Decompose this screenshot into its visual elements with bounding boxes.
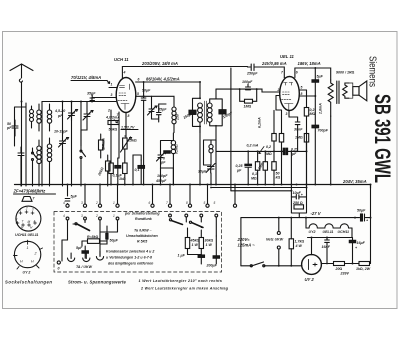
capacitor flat IF2 bbox=[164, 151, 170, 153]
resistor 0,2M vert top bbox=[272, 126, 276, 141]
svg-text:Rundfunk: Rundfunk bbox=[135, 217, 153, 221]
svg-text:3: 3 bbox=[32, 208, 34, 212]
svg-text:50kΩ: 50kΩ bbox=[109, 128, 118, 132]
svg-text:kΩ: kΩ bbox=[276, 176, 281, 180]
resistor vert cathode bbox=[119, 163, 127, 185]
node dots tube right bbox=[143, 81, 145, 97]
svg-text:3: 3 bbox=[81, 214, 83, 218]
label 2,8mA bbox=[319, 103, 323, 115]
svg-text:R≈5kΩ: R≈5kΩ bbox=[87, 235, 99, 239]
IF1 secondary winding bbox=[207, 103, 212, 108]
wire grid bus left bbox=[42, 101, 116, 103]
oscillator coil bbox=[172, 100, 180, 133]
svg-text:204V; 35mA: 204V; 35mA bbox=[342, 179, 367, 184]
svg-text:MΩ: MΩ bbox=[266, 152, 272, 156]
svg-text:des Empfängers entfernen: des Empfängers entfernen bbox=[108, 262, 154, 266]
wire verticals tuner bbox=[15, 98, 93, 187]
label 5/4mA vert bbox=[102, 138, 106, 149]
pin2 wire down bbox=[110, 110, 112, 121]
terminal row A circles bbox=[63, 201, 237, 207]
wire grid line to 250pF bbox=[216, 68, 257, 89]
svg-text:4,0/2mA: 4,0/2mA bbox=[105, 116, 120, 120]
resistor 1M loop bbox=[239, 88, 258, 108]
svg-text:Sockelschaltungen: Sockelschaltungen bbox=[5, 280, 53, 285]
jack sockets bbox=[68, 251, 104, 269]
capacitor 0,25uF series bbox=[283, 148, 299, 157]
bottom caption Sockelschaltungen bbox=[5, 279, 229, 291]
svg-text:220V≈: 220V≈ bbox=[237, 237, 251, 242]
svg-text:1,7kΩ: 1,7kΩ bbox=[295, 240, 305, 244]
terminal row B circles bbox=[63, 214, 218, 220]
capacitor pad bbox=[157, 108, 162, 118]
label 0,2M det bbox=[266, 145, 272, 156]
output transformer primary zigzag bbox=[328, 80, 333, 116]
svg-text:M: M bbox=[28, 220, 31, 224]
svg-text:Ta /UKW –: Ta /UKW – bbox=[134, 229, 152, 233]
svg-text:250: 250 bbox=[176, 114, 180, 121]
tube UCH11 envelope bbox=[116, 78, 136, 113]
capacitor 0,25uF AF bbox=[236, 150, 252, 185]
svg-text:8: 8 bbox=[16, 218, 18, 222]
svg-text:0,2: 0,2 bbox=[266, 145, 271, 149]
wire top to UEL11 pin7 bbox=[258, 67, 284, 78]
resistor 5k in box bbox=[82, 235, 107, 244]
terminal netz 2 bbox=[277, 246, 280, 249]
svg-text:86/104V, 4,5/2mA: 86/104V, 4,5/2mA bbox=[146, 77, 180, 82]
svg-text:9000 / 1RΩ: 9000 / 1RΩ bbox=[336, 71, 355, 75]
svg-text:4: 4 bbox=[34, 220, 36, 224]
svg-text:6: 6 bbox=[149, 201, 151, 205]
capacitor 5uF in box bbox=[76, 246, 88, 258]
svg-text:0,5kΩ: 0,5kΩ bbox=[175, 144, 179, 154]
tube UCH11 internals bbox=[118, 84, 130, 110]
svg-text:30nF: 30nF bbox=[294, 128, 303, 132]
capacitor 250pF bbox=[246, 64, 258, 76]
wire UY2 right bbox=[321, 263, 370, 265]
wire 50uF vertical bbox=[143, 82, 145, 185]
svg-text:1: 1 bbox=[20, 208, 22, 212]
capacitor 50uF box bbox=[106, 226, 119, 243]
wire avc upper bbox=[230, 89, 232, 191]
svg-text:8: 8 bbox=[128, 114, 130, 118]
capacitor 50uF anode bbox=[141, 89, 151, 101]
svg-text:20Ω: 20Ω bbox=[335, 267, 343, 271]
resistor vert bias bbox=[109, 121, 114, 185]
trimmer 35pF osc bbox=[148, 96, 168, 115]
trimmer 70pF bbox=[157, 152, 167, 165]
svg-text:16nF: 16nF bbox=[322, 245, 331, 249]
capacitor 1uF bbox=[178, 254, 205, 258]
IF2 loop left bbox=[161, 141, 174, 169]
svg-text:2: 2 bbox=[107, 109, 110, 113]
tuner box outline bbox=[15, 103, 27, 186]
svg-text:5/4mA: 5/4mA bbox=[102, 138, 106, 149]
wire pin3 to bus bbox=[92, 97, 116, 99]
wires in box left bbox=[62, 222, 107, 261]
svg-text:Strom- u. Spannungswerte: Strom- u. Spannungswerte bbox=[68, 280, 127, 285]
switch S2 bbox=[80, 146, 86, 168]
potentiometer 25k bbox=[121, 136, 137, 163]
wires osc row bbox=[152, 96, 175, 122]
resistor 0,2M bbox=[304, 90, 315, 133]
svg-text:Kondensator zwischen 4 u 2: Kondensator zwischen 4 u 2 bbox=[106, 250, 154, 254]
resistor 50k horizontal bbox=[108, 121, 119, 132]
IF1 right loop bbox=[210, 89, 223, 184]
svg-text:30kΩ: 30kΩ bbox=[205, 239, 214, 243]
output transformer core bbox=[337, 81, 339, 104]
texts in dashed box bbox=[106, 212, 160, 266]
svg-text:u Verbindungen 1-2 u 6·7·8: u Verbindungen 1-2 u 6·7·8 bbox=[106, 256, 152, 260]
svg-text:2: 2 bbox=[277, 88, 280, 92]
svg-text:7: 7 bbox=[166, 201, 168, 205]
IF2 primary coil bbox=[171, 133, 178, 185]
antenna bbox=[10, 64, 33, 186]
terminal netz 1 bbox=[277, 232, 280, 235]
capacitor 50uF mains bbox=[357, 209, 369, 223]
coil L4 lower bbox=[37, 140, 41, 169]
svg-text:2: 2 bbox=[25, 207, 28, 211]
label 1,5/2,7V bbox=[121, 126, 135, 130]
svg-text:2 Wert Lautstärkeregler am li: 2 Wert Lautstärkeregler am linken Anschl… bbox=[140, 287, 229, 291]
svg-text:5: 5 bbox=[301, 86, 303, 90]
svg-text:50µF: 50µF bbox=[110, 239, 119, 243]
svg-text:1kΩ: 1kΩ bbox=[119, 177, 126, 181]
svg-text:250 Ω: 250 Ω bbox=[292, 201, 303, 205]
capacitor 200uF bbox=[188, 236, 220, 268]
resistor det 3 bbox=[272, 141, 281, 185]
svg-text:ZF=473(468)kHz: ZF=473(468)kHz bbox=[13, 189, 47, 194]
svg-text:100pF: 100pF bbox=[157, 174, 168, 178]
wire det verticals bbox=[274, 110, 282, 184]
wire left vertical bbox=[41, 102, 43, 187]
svg-text:0,2 mA: 0,2 mA bbox=[247, 144, 259, 148]
wire 186V line bbox=[295, 68, 331, 80]
capacitor 30nF bbox=[289, 117, 303, 152]
socket UCH11 UEL11 bbox=[15, 206, 41, 237]
RC branch 10uF/250ohm bbox=[210, 142, 307, 218]
svg-text:5µF: 5µF bbox=[76, 246, 83, 250]
svg-text:Umschaltkästchen: Umschaltkästchen bbox=[126, 234, 159, 238]
svg-text:UCH11: UCH11 bbox=[338, 230, 350, 234]
wire pin1 left bbox=[109, 87, 116, 89]
svg-text:203/205V, 18/0 mA: 203/205V, 18/0 mA bbox=[141, 61, 178, 66]
resistor 1M below bbox=[295, 134, 309, 152]
capacitor 35pF grid bbox=[87, 92, 96, 102]
capacitor 700pF bbox=[312, 125, 329, 184]
svg-text:MΩ: MΩ bbox=[310, 112, 316, 116]
svg-text:50µF: 50µF bbox=[357, 209, 366, 213]
label 4,0/2mA bbox=[105, 116, 120, 120]
IF1 capacitor 150pF left bbox=[183, 110, 196, 120]
svg-text:1MΩ: 1MΩ bbox=[244, 105, 252, 109]
svg-text:8: 8 bbox=[186, 201, 188, 205]
node dots det bbox=[257, 150, 308, 152]
coil L5 lower bbox=[47, 138, 51, 170]
speaker mini symbol bbox=[22, 197, 36, 202]
electrolytic 0,1 second bbox=[135, 160, 145, 185]
node dots left bus bbox=[21, 101, 94, 103]
switch S1 lower left bbox=[32, 148, 38, 168]
electrolytic 16uF bbox=[349, 238, 365, 264]
IF2 sec loop bbox=[204, 140, 212, 165]
svg-text:per Schalterstellung: per Schalterstellung bbox=[124, 212, 160, 216]
svg-text:30µF: 30µF bbox=[198, 170, 207, 174]
svg-text:UEL11: UEL11 bbox=[323, 230, 334, 234]
svg-text:UY 2: UY 2 bbox=[23, 271, 31, 275]
svg-text:4: 4 bbox=[63, 201, 65, 205]
svg-text:0: 0 bbox=[58, 267, 60, 271]
wire AVC vertical bbox=[199, 126, 201, 184]
label 70/121V bbox=[71, 75, 101, 80]
tube UEL11 envelope bbox=[280, 77, 300, 111]
wire pin3 left bbox=[109, 97, 116, 99]
svg-text:6: 6 bbox=[138, 78, 140, 82]
IF1 core bbox=[205, 101, 207, 124]
svg-text:UEL 11: UEL 11 bbox=[280, 54, 294, 59]
svg-text:70/121V, 4/8mA: 70/121V, 4/8mA bbox=[71, 75, 101, 80]
resistor 1,7k 4W bbox=[278, 217, 305, 266]
svg-text:35pF: 35pF bbox=[87, 92, 96, 96]
svg-text:3: 3 bbox=[81, 201, 83, 205]
svg-text:pF: pF bbox=[6, 126, 12, 130]
pin7 wire down bbox=[118, 112, 120, 134]
svg-text:125mA ~: 125mA ~ bbox=[238, 243, 256, 248]
heater chain bbox=[305, 217, 356, 255]
svg-text:4 W: 4 W bbox=[295, 244, 303, 248]
svg-text:4: 4 bbox=[63, 214, 65, 218]
label ZF bbox=[13, 189, 47, 194]
capacitor 5uF drop bbox=[65, 195, 77, 202]
resistor R vert x108 lower bbox=[97, 155, 110, 186]
svg-text:2: 2 bbox=[95, 201, 98, 205]
svg-text:1 Wert Lautstärkeregler 210°: 1 Wert Lautstärkeregler 210° nach rechts bbox=[139, 279, 223, 283]
switch blade right box bbox=[169, 217, 216, 236]
svg-text:0,25: 0,25 bbox=[236, 164, 244, 168]
terminal drops from bus bbox=[67, 184, 237, 205]
trimmer capacitor 2 bbox=[81, 102, 93, 147]
svg-text:1kΩ, 2W: 1kΩ, 2W bbox=[356, 267, 371, 271]
svg-text:1,5/2,7V: 1,5/2,7V bbox=[121, 126, 135, 130]
svg-text:R 5K5: R 5K5 bbox=[137, 240, 148, 244]
resistor 45k 1W bbox=[185, 228, 199, 255]
svg-text:µF: µF bbox=[236, 169, 242, 173]
svg-text:H: H bbox=[20, 260, 23, 264]
svg-text:1MΩ: 1MΩ bbox=[295, 136, 303, 140]
svg-text:1: 1 bbox=[111, 83, 113, 87]
svg-text:4: 4 bbox=[123, 71, 126, 75]
svg-text:35pF: 35pF bbox=[158, 108, 167, 112]
socket UY2 bbox=[14, 240, 43, 274]
svg-text:6: 6 bbox=[296, 71, 298, 75]
svg-text:Netz UKW: Netz UKW bbox=[266, 238, 284, 242]
204V rail bbox=[330, 116, 332, 185]
tube UCH11 pin4 bbox=[121, 67, 123, 79]
tube UEL11 internals bbox=[282, 83, 294, 111]
resistor 1k 2W bbox=[356, 262, 371, 272]
IF1 primary winding bbox=[198, 103, 203, 108]
labels 100pF 450uF bbox=[155, 174, 168, 183]
wire det row bbox=[211, 140, 307, 151]
capacitor left of switch bbox=[18, 147, 24, 169]
pin8 wire down bbox=[125, 113, 127, 137]
rectifier tube UY2 bbox=[302, 255, 322, 282]
svg-text:3: 3 bbox=[286, 112, 288, 116]
wire IF2 vertical links bbox=[161, 133, 307, 185]
svg-text:100µF: 100µF bbox=[242, 80, 253, 84]
node dots bus bbox=[110, 125, 332, 186]
label 24V bbox=[261, 61, 287, 66]
resistor R vert x101 bbox=[99, 134, 106, 158]
node IF1 bbox=[199, 81, 201, 127]
svg-text:UCH 11: UCH 11 bbox=[114, 57, 129, 62]
terminal 0 bbox=[57, 261, 60, 271]
svg-text:5µF: 5µF bbox=[71, 195, 78, 199]
label UCH11 bbox=[114, 57, 129, 62]
node dots power bbox=[326, 184, 371, 265]
wire 86V line pin6 bbox=[136, 81, 200, 83]
UEL11 pin stubs bbox=[276, 68, 315, 117]
svg-text:7: 7 bbox=[22, 220, 24, 224]
electrolytic 5uF bbox=[312, 67, 324, 97]
svg-text:1: 1 bbox=[27, 246, 29, 250]
coil L1 bbox=[30, 106, 34, 128]
output transformer secondary bbox=[343, 83, 349, 98]
resistor 30k 1W bbox=[199, 230, 213, 255]
title Siemens bbox=[367, 56, 396, 183]
label 9000/1,8 bbox=[336, 71, 355, 75]
svg-text:5: 5 bbox=[214, 201, 216, 205]
trimmer capacitor 4,5-20pF bbox=[54, 102, 78, 121]
svg-text:3: 3 bbox=[111, 93, 113, 97]
svg-text:700pF: 700pF bbox=[318, 129, 329, 133]
svg-text:2,8mA: 2,8mA bbox=[319, 103, 323, 115]
label 0,1mA bbox=[258, 117, 262, 128]
svg-text:1 µF: 1 µF bbox=[178, 254, 186, 258]
svg-text:8: 8 bbox=[301, 92, 303, 96]
label Netz UKW bbox=[266, 238, 284, 242]
wire pin5 right bbox=[136, 95, 151, 97]
svg-text:1: 1 bbox=[113, 201, 115, 205]
label UEL11 bbox=[280, 54, 294, 59]
label 0,2mA arrow bbox=[247, 144, 259, 148]
svg-text:H: H bbox=[31, 260, 34, 264]
svg-text:SB 391 GWL: SB 391 GWL bbox=[370, 94, 395, 183]
switch blade left box bbox=[62, 220, 118, 240]
svg-text:MΩ: MΩ bbox=[251, 177, 257, 181]
dashed box Umschaltkasten bbox=[54, 212, 222, 273]
svg-text:TA / UKW: TA / UKW bbox=[76, 265, 93, 269]
svg-text:10-15pF: 10-15pF bbox=[54, 130, 68, 134]
svg-text:186V, 18mA: 186V, 18mA bbox=[298, 61, 321, 66]
svg-text:5: 5 bbox=[137, 92, 139, 96]
svg-text:1 W: 1 W bbox=[192, 243, 199, 247]
svg-text:5: 5 bbox=[204, 201, 206, 205]
svg-text:239V: 239V bbox=[340, 272, 350, 276]
svg-text:5µF: 5µF bbox=[317, 75, 324, 79]
IF1 capacitor 150pF right bbox=[219, 110, 234, 120]
coil L3 bbox=[47, 104, 51, 131]
svg-text:UCH11 UEL11: UCH11 UEL11 bbox=[15, 233, 38, 237]
capacitor 100uF bbox=[242, 80, 253, 90]
svg-text:UY 2: UY 2 bbox=[305, 277, 315, 282]
resistor 20ohm bbox=[334, 262, 350, 276]
svg-text:16µF: 16µF bbox=[357, 241, 366, 245]
wire -27V line bbox=[241, 218, 371, 266]
capacitor 50pF bbox=[6, 120, 18, 136]
svg-text:pF: pF bbox=[160, 161, 166, 165]
svg-text:-27 V: -27 V bbox=[311, 211, 322, 216]
svg-text:2: 2 bbox=[95, 214, 98, 218]
power switch bbox=[241, 262, 302, 267]
capacitor 16nF bbox=[322, 238, 331, 264]
resistor det 2 bbox=[257, 151, 267, 184]
speaker bbox=[349, 81, 367, 101]
svg-text:0,1: 0,1 bbox=[135, 168, 140, 172]
svg-text:6,1mA: 6,1mA bbox=[258, 117, 262, 128]
wire 203V line bbox=[122, 66, 247, 68]
svg-text:1 W: 1 W bbox=[206, 243, 213, 247]
wire anode down bbox=[314, 96, 316, 125]
wire to UEL11 grid bbox=[257, 89, 280, 92]
electrolytic 0,1uF bbox=[113, 158, 123, 185]
svg-text:4,5-20: 4,5-20 bbox=[54, 109, 65, 113]
IF transformer 1 left loop bbox=[193, 82, 201, 133]
coil L2 bbox=[37, 104, 41, 131]
svg-text:0,1: 0,1 bbox=[252, 172, 257, 176]
svg-text:UY2: UY2 bbox=[309, 230, 316, 234]
IF2 secondary coil bbox=[209, 140, 213, 164]
svg-text:200µF: 200µF bbox=[206, 264, 218, 268]
svg-text:250pF: 250pF bbox=[246, 72, 258, 76]
svg-text:2: 2 bbox=[34, 252, 37, 256]
svg-text:45kΩ: 45kΩ bbox=[190, 239, 200, 243]
svg-text:Siemens: Siemens bbox=[367, 56, 379, 87]
svg-text:24V/0,86 mA: 24V/0,86 mA bbox=[261, 61, 287, 66]
variable capacitor 10-15pF bbox=[54, 130, 69, 150]
svg-text:25kΩ: 25kΩ bbox=[127, 139, 137, 143]
wire osc bottom bbox=[111, 134, 141, 185]
svg-text:1: 1 bbox=[113, 214, 115, 218]
resistor det 1 bbox=[251, 151, 260, 184]
label 220V mains bbox=[237, 237, 256, 248]
trimmer IF2 sec bbox=[198, 164, 215, 174]
main bus bbox=[15, 185, 371, 189]
